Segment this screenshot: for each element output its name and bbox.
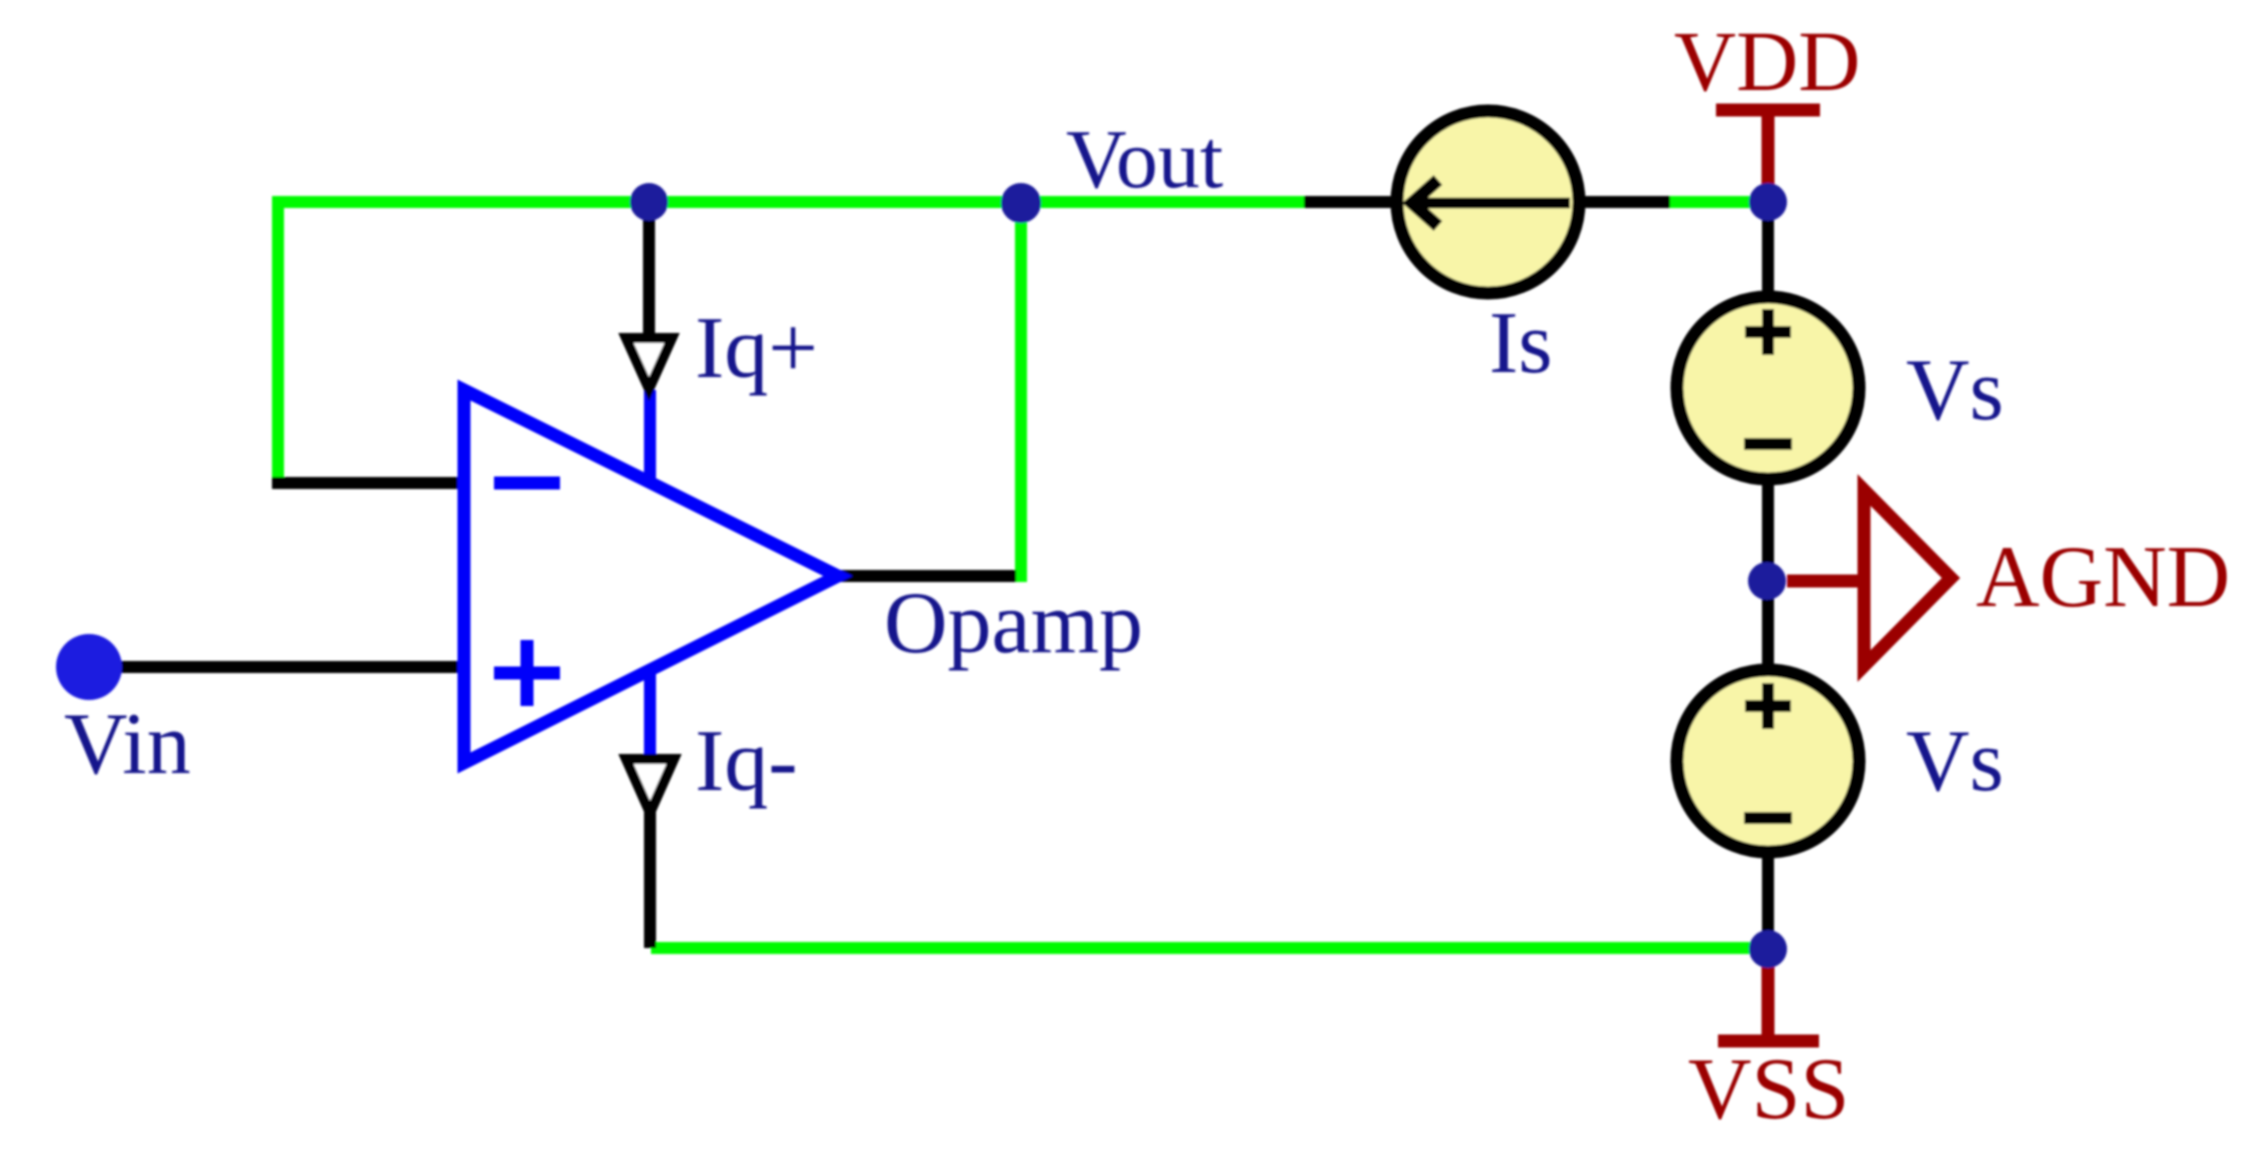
svg-text:Vs: Vs [1906,713,2004,810]
svg-text:Iq+: Iq+ [695,300,818,397]
svg-text:Iq-: Iq- [695,713,798,810]
svg-text:AGND: AGND [1976,529,2230,626]
svg-text:VSS: VSS [1688,1041,1849,1138]
svg-text:Vout: Vout [1066,113,1223,206]
svg-text:Is: Is [1489,295,1553,392]
svg-text:Opamp: Opamp [884,575,1143,672]
svg-text:Vs: Vs [1906,342,2004,439]
svg-text:VDD: VDD [1674,13,1860,109]
svg-text:Vin: Vin [64,696,191,793]
